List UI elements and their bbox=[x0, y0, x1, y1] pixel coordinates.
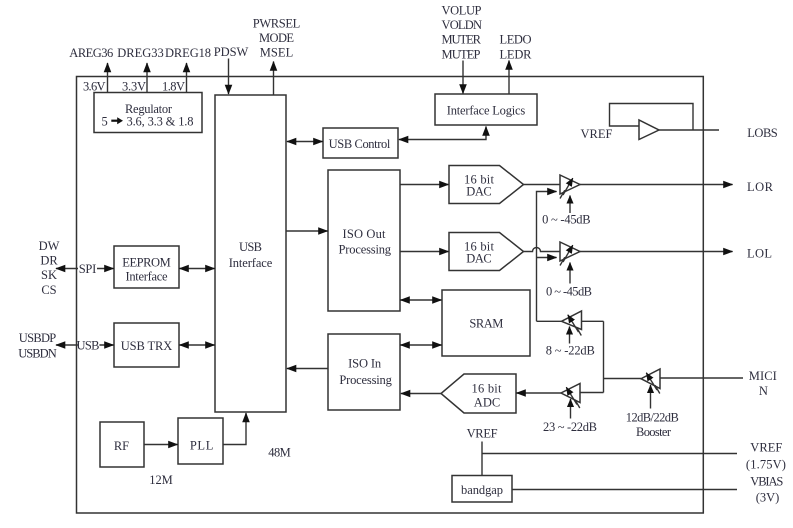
svg-text:1.8V: 1.8V bbox=[162, 80, 185, 94]
svg-text:16 bit: 16 bit bbox=[472, 381, 503, 395]
wire LED output arrow from Interface Logics bbox=[508, 61, 510, 95]
wire USB TRX to USB Interface bidirectional bbox=[180, 344, 215, 346]
USB TRX box bbox=[114, 323, 179, 367]
EEPROM Interface box bbox=[114, 246, 179, 288]
svg-text:VOLUP: VOLUP bbox=[442, 4, 482, 18]
svg-text:MICI: MICI bbox=[749, 369, 777, 383]
svg-text:USBDP: USBDP bbox=[19, 331, 57, 345]
ISO In Processing box bbox=[328, 334, 400, 410]
svg-text:bandgap: bandgap bbox=[461, 483, 503, 497]
regulator box bbox=[94, 93, 202, 133]
svg-text:Booster: Booster bbox=[636, 425, 672, 439]
chip outer border bbox=[77, 77, 704, 514]
svg-text:VREF: VREF bbox=[750, 441, 782, 455]
svg-text:PLL: PLL bbox=[190, 439, 214, 453]
wire MSEL output arrow bbox=[273, 62, 275, 96]
svg-text:DR: DR bbox=[40, 254, 58, 268]
svg-text:SRAM: SRAM bbox=[469, 317, 503, 331]
svg-text:LOL: LOL bbox=[747, 247, 772, 261]
RF box bbox=[100, 422, 144, 467]
wire USB bidirectional bbox=[56, 339, 114, 353]
svg-text:LEDR: LEDR bbox=[500, 48, 533, 62]
wire 1.8V regulator output arrow bbox=[186, 63, 188, 93]
svg-text:(3V): (3V) bbox=[756, 490, 780, 504]
svg-text:VREF: VREF bbox=[467, 427, 498, 441]
wire VREF 1.75V output bbox=[482, 453, 737, 455]
ADC (16 bit ADC) pentagon bbox=[441, 374, 516, 413]
svg-text:LOBS: LOBS bbox=[747, 126, 778, 140]
wire ISO Out to DAC L arrow bbox=[401, 251, 449, 253]
svg-text:Interface Logics: Interface Logics bbox=[447, 104, 526, 118]
svg-text:USB TRX: USB TRX bbox=[121, 339, 173, 353]
wire buttons input arrow into Interface Logics bbox=[462, 61, 464, 94]
wire ISO Out to DAC R arrow bbox=[401, 184, 449, 186]
svg-text:ISO In: ISO In bbox=[348, 357, 382, 371]
Interface Logics box bbox=[435, 94, 537, 125]
volume amp L 0~-45dB bbox=[560, 242, 580, 284]
svg-text:MUTER: MUTER bbox=[442, 33, 482, 47]
svg-text:12M: 12M bbox=[149, 473, 173, 487]
svg-text:Interface: Interface bbox=[229, 256, 273, 270]
svg-text:PWRSEL: PWRSEL bbox=[253, 17, 301, 31]
ISO Out Processing box bbox=[328, 170, 400, 311]
wire ISO In to SRAM bidirectional bbox=[401, 344, 442, 346]
wire DAC R to volume amp R bbox=[524, 184, 561, 186]
svg-text:USBDN: USBDN bbox=[18, 347, 57, 361]
svg-text:SPI: SPI bbox=[79, 262, 97, 276]
svg-text:SK: SK bbox=[41, 268, 57, 282]
svg-text:RF: RF bbox=[114, 439, 129, 453]
svg-text:N: N bbox=[759, 384, 768, 398]
svg-text:VREF: VREF bbox=[581, 127, 613, 141]
sidetone bus vertical wire with tap arrow into amp R bbox=[537, 192, 557, 322]
svg-text:3.6V: 3.6V bbox=[83, 80, 106, 94]
sidetone tap arrow into amp L bbox=[537, 257, 557, 259]
svg-text:AREG36: AREG36 bbox=[69, 46, 113, 60]
svg-text:48M: 48M bbox=[268, 446, 291, 460]
DAC R (16 bit DAC) pentagon bbox=[449, 166, 524, 204]
wire mic amp output to ADC bbox=[517, 392, 562, 394]
svg-text:USB: USB bbox=[239, 240, 262, 254]
wire 3.6V regulator output arrow bbox=[107, 63, 109, 93]
VREF buffer op-amp for LOBS bbox=[610, 104, 720, 140]
svg-text:MSEL: MSEL bbox=[260, 46, 294, 60]
svg-text:8 ~ -22dB: 8 ~ -22dB bbox=[546, 344, 595, 358]
svg-text:0 ~ -45dB: 0 ~ -45dB bbox=[546, 285, 592, 299]
PLL box bbox=[178, 418, 223, 464]
volume amp R 0~-45dB bbox=[560, 175, 580, 213]
svg-text:12dB/22dB: 12dB/22dB bbox=[626, 411, 679, 425]
wire USB Interface to ISO Out arrow bbox=[287, 230, 328, 232]
svg-text:LEDO: LEDO bbox=[500, 33, 532, 47]
wire ISO Out to SRAM bidirectional bbox=[401, 299, 442, 301]
svg-text:ADC: ADC bbox=[474, 396, 501, 410]
svg-text:VOLDN: VOLDN bbox=[442, 18, 483, 32]
svg-text:PDSW: PDSW bbox=[214, 45, 249, 59]
svg-text:Processing: Processing bbox=[339, 243, 392, 257]
svg-text:23 ~ -22dB: 23 ~ -22dB bbox=[543, 420, 597, 434]
bandgap box bbox=[452, 476, 512, 503]
svg-text:DAC: DAC bbox=[466, 252, 492, 266]
svg-text:MUTEP: MUTEP bbox=[442, 48, 481, 62]
wire USB Interface to USB Control bidirectional bbox=[287, 141, 323, 143]
svg-text:5: 5 bbox=[102, 115, 108, 129]
wire amp L output to LOL bbox=[580, 251, 733, 253]
mic path vertical wire bbox=[603, 321, 605, 392]
USB Control box bbox=[323, 128, 398, 158]
wire MICI N input bbox=[660, 377, 743, 379]
svg-text:DREG18: DREG18 bbox=[165, 46, 211, 60]
svg-text:EEPROM: EEPROM bbox=[122, 256, 171, 270]
wire mic bus to mic amp input bbox=[580, 392, 604, 394]
svg-text:DW: DW bbox=[39, 239, 60, 253]
svg-text:VBIAS: VBIAS bbox=[750, 474, 783, 488]
svg-text:USB: USB bbox=[77, 339, 100, 353]
wire sidetone amp input bbox=[582, 320, 604, 322]
svg-text:3.6, 3.3 & 1.8: 3.6, 3.3 & 1.8 bbox=[127, 115, 194, 129]
wire PDSW input arrow bbox=[228, 59, 230, 95]
svg-text:DREG33: DREG33 bbox=[117, 46, 164, 60]
wire EEPROM to USB Interface bidirectional bbox=[180, 268, 215, 270]
wire booster output to mic bus bbox=[604, 378, 642, 380]
wire ISO In to USB Interface arrow bbox=[287, 368, 328, 370]
wire SPI bidirectional bbox=[56, 261, 114, 276]
svg-text:Processing: Processing bbox=[339, 373, 392, 387]
svg-text:Interface: Interface bbox=[126, 270, 168, 284]
SRAM box bbox=[442, 290, 530, 356]
svg-text:3.3V: 3.3V bbox=[122, 80, 146, 94]
mic amp 23~-22dB bbox=[561, 384, 580, 419]
wire VBIAS 3V output bbox=[513, 489, 738, 491]
svg-text:ISO Out: ISO Out bbox=[343, 227, 387, 241]
wire ADC output to ISO In bbox=[401, 393, 441, 395]
svg-text:CS: CS bbox=[41, 283, 56, 297]
wire VREF to bandgap bbox=[481, 442, 483, 476]
svg-text:MODE: MODE bbox=[259, 31, 294, 45]
svg-text:0 ~ -45dB: 0 ~ -45dB bbox=[542, 213, 591, 227]
svg-text:USB Control: USB Control bbox=[329, 137, 391, 151]
USB Interface box bbox=[215, 95, 286, 412]
svg-text:DAC: DAC bbox=[466, 185, 492, 199]
mic booster amp bbox=[641, 369, 660, 409]
wire DAC L to volume amp L with hop over sidetone bus bbox=[524, 248, 561, 252]
wire PLL 48M clock to USB Interface bbox=[223, 413, 246, 445]
wire amp R output to LOR bbox=[580, 184, 733, 186]
DAC L (16 bit DAC) pentagon bbox=[449, 233, 524, 271]
wire sidetone amp output to bus bbox=[537, 320, 562, 322]
sidetone amp 8~-22dB bbox=[562, 311, 582, 344]
svg-text:LOR: LOR bbox=[747, 180, 774, 194]
wire RF to PLL arrow bbox=[144, 444, 178, 446]
svg-text:(1.75V): (1.75V) bbox=[746, 457, 786, 471]
wire 3.3V regulator output arrow bbox=[146, 63, 148, 93]
wire USB Control to Interface Logics bbox=[399, 127, 486, 140]
